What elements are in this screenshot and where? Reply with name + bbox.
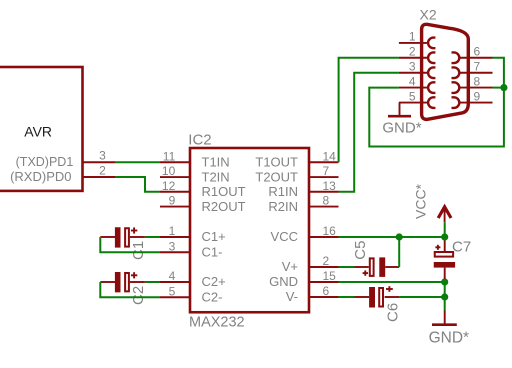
X2 pin 8 <box>452 82 493 93</box>
IC2 right pin stubs <box>309 162 339 297</box>
svg-text:1: 1 <box>409 30 416 44</box>
ground symbol bottom right <box>432 311 457 325</box>
svg-text:2: 2 <box>323 254 330 268</box>
svg-text:R1OUT: R1OUT <box>202 184 246 199</box>
svg-text:T2IN: T2IN <box>202 169 230 184</box>
AVR pin 2 stub <box>83 176 115 178</box>
wire IC2 pin6 V- to C6 <box>338 296 354 298</box>
AVR pin 3 stub <box>83 161 115 163</box>
AVR pin 2 number <box>99 163 106 177</box>
X2 pin 5 number <box>409 89 416 103</box>
svg-text:3: 3 <box>99 148 106 162</box>
GND* label at X2 <box>382 119 421 136</box>
svg-text:12: 12 <box>162 179 176 193</box>
svg-text:R2OUT: R2OUT <box>202 199 246 214</box>
C7 name label <box>452 239 471 256</box>
svg-text:MAX232: MAX232 <box>189 315 245 331</box>
svg-text:5: 5 <box>409 89 416 103</box>
X2 pin 7 number <box>474 60 481 74</box>
capacitor C5 <box>355 257 400 277</box>
svg-text:3: 3 <box>169 239 176 253</box>
svg-text:13: 13 <box>323 179 337 193</box>
capacitor C6 <box>355 286 400 307</box>
IC2 value label MAX232 <box>189 315 245 331</box>
wire C2 to IC2 pin 4 <box>145 281 160 283</box>
junction V-/GND column <box>441 293 448 300</box>
connector X2 body <box>422 24 469 119</box>
svg-text:7: 7 <box>323 164 330 178</box>
X2 pin 1 number <box>409 30 416 44</box>
wire IC2 pin13 to X2 pin3 <box>339 73 399 192</box>
wire IC2 pin14 to X2 pin2 <box>339 58 399 163</box>
svg-text:VCC*: VCC* <box>412 183 428 219</box>
svg-text:1: 1 <box>169 224 176 238</box>
wire C6 to GND column <box>399 296 444 298</box>
wire AVR pin3 to IC2 pin11 <box>115 161 160 163</box>
X2 name label <box>420 7 437 23</box>
X2 pin 1 <box>399 38 436 49</box>
X2 pin 3 <box>399 67 436 78</box>
svg-text:T1OUT: T1OUT <box>255 154 298 169</box>
VCC supply symbol <box>438 207 451 222</box>
capacitor C7 <box>434 240 455 279</box>
svg-text:X2: X2 <box>420 7 437 23</box>
wire AVR pin2 to IC2 pin12 <box>115 177 160 192</box>
VCC* label <box>412 183 428 219</box>
wire C2 to IC2 pin 5 <box>100 282 160 297</box>
junction GND/C7 <box>441 278 448 285</box>
svg-text:9: 9 <box>169 194 176 208</box>
svg-text:7: 7 <box>474 60 481 74</box>
wire IC2 pin2 V+ to C5 <box>339 266 355 268</box>
svg-text:R1IN: R1IN <box>268 184 298 199</box>
X2 pin 6 number <box>474 45 481 59</box>
svg-text:6: 6 <box>323 284 330 298</box>
X2 pin 6 <box>452 52 493 63</box>
svg-text:GND*: GND* <box>382 119 421 136</box>
X2 pin 9 number <box>474 89 481 103</box>
AVR pin 3 number <box>99 148 106 162</box>
IC2 right pin numbers <box>323 149 337 298</box>
junction VCC/C5 <box>396 233 403 240</box>
svg-text:AVR: AVR <box>24 123 52 139</box>
ground symbol at X2 pin 5 <box>388 103 411 117</box>
X2 pin 4 number <box>409 74 416 88</box>
svg-text:10: 10 <box>162 164 176 178</box>
IC2 left pin numbers <box>162 149 176 298</box>
IC2 right pin names <box>255 154 298 304</box>
svg-text:(RXD)PD0: (RXD)PD0 <box>10 169 71 184</box>
AVR pin (RXD)PD0 label <box>10 169 71 184</box>
svg-text:11: 11 <box>163 149 176 163</box>
wire C7 top to VCC junction <box>444 237 446 241</box>
svg-text:3: 3 <box>409 60 416 74</box>
AVR box <box>0 67 83 191</box>
svg-text:C1: C1 <box>130 241 147 260</box>
wire C7 bottom / GND column <box>444 279 446 297</box>
wire C1 to IC2 pin 3 <box>100 237 160 252</box>
svg-text:C2: C2 <box>130 286 147 305</box>
svg-text:V-: V- <box>286 289 298 304</box>
svg-text:15: 15 <box>323 269 337 283</box>
svg-text:R2IN: R2IN <box>268 199 298 214</box>
AVR pin (TXD)PD1 label <box>16 155 74 169</box>
svg-text:4: 4 <box>169 269 176 283</box>
X2 pin 9 <box>452 97 493 108</box>
wire C5 to VCC net <box>398 237 400 267</box>
IC2 left pin names <box>202 154 246 304</box>
X2 pin 5 <box>399 97 436 108</box>
X2 pin 2 <box>399 52 436 63</box>
capacitor C2 <box>100 272 145 292</box>
svg-text:5: 5 <box>169 284 176 298</box>
svg-text:9: 9 <box>474 89 481 103</box>
capacitor C1 <box>100 227 145 247</box>
svg-text:V+: V+ <box>282 259 298 274</box>
wire VCC symbol stem <box>444 222 446 237</box>
svg-text:GND: GND <box>269 274 298 289</box>
svg-text:C2+: C2+ <box>202 274 226 289</box>
X2 pin 8 number <box>474 74 481 88</box>
svg-text:T2OUT: T2OUT <box>255 169 298 184</box>
IC2 left pin stubs <box>160 162 190 297</box>
svg-text:6: 6 <box>474 45 481 59</box>
GND* label bottom right <box>429 330 469 347</box>
svg-text:C2-: C2- <box>202 289 223 304</box>
svg-text:C7: C7 <box>452 239 471 256</box>
svg-text:2: 2 <box>409 45 416 59</box>
svg-text:IC2: IC2 <box>188 131 211 148</box>
svg-text:GND*: GND* <box>429 330 469 347</box>
C6 name label <box>384 303 401 322</box>
wire C1 to IC2 pin 1 <box>145 236 160 238</box>
svg-text:14: 14 <box>323 149 337 163</box>
svg-text:T1IN: T1IN <box>202 154 230 169</box>
op-amp IC2 box <box>190 148 309 312</box>
svg-text:8: 8 <box>323 194 330 208</box>
svg-text:2: 2 <box>99 163 106 177</box>
svg-text:4: 4 <box>409 74 416 88</box>
wire GND column to ground symbol <box>444 297 446 311</box>
IC2 name label <box>188 131 211 148</box>
X2 pin 4 <box>399 82 436 93</box>
svg-text:8: 8 <box>474 74 481 88</box>
AVR name label <box>24 123 52 139</box>
svg-text:C1+: C1+ <box>202 229 226 244</box>
C1 name label <box>130 241 147 260</box>
svg-text:VCC: VCC <box>271 229 298 244</box>
C5 name label <box>352 241 369 260</box>
X2 pin 7 <box>452 67 493 78</box>
X2 pin 2 number <box>409 45 416 59</box>
junction VCC/C7 <box>441 233 448 240</box>
svg-text:16: 16 <box>323 224 337 238</box>
wire VCC net (IC2 pin16) <box>339 236 445 238</box>
svg-text:C5: C5 <box>352 241 369 260</box>
svg-text:C6: C6 <box>384 303 401 322</box>
svg-text:(TXD)PD1: (TXD)PD1 <box>16 155 74 169</box>
X2 pin 3 number <box>409 60 416 74</box>
wire GND net (IC2 pin15) <box>339 281 445 283</box>
wire X2 pin4 loop to pins 8 and 6 <box>369 58 504 147</box>
svg-text:C1-: C1- <box>202 244 223 259</box>
C2 name label <box>130 286 147 305</box>
junction at X2 pin 8 <box>500 84 507 91</box>
